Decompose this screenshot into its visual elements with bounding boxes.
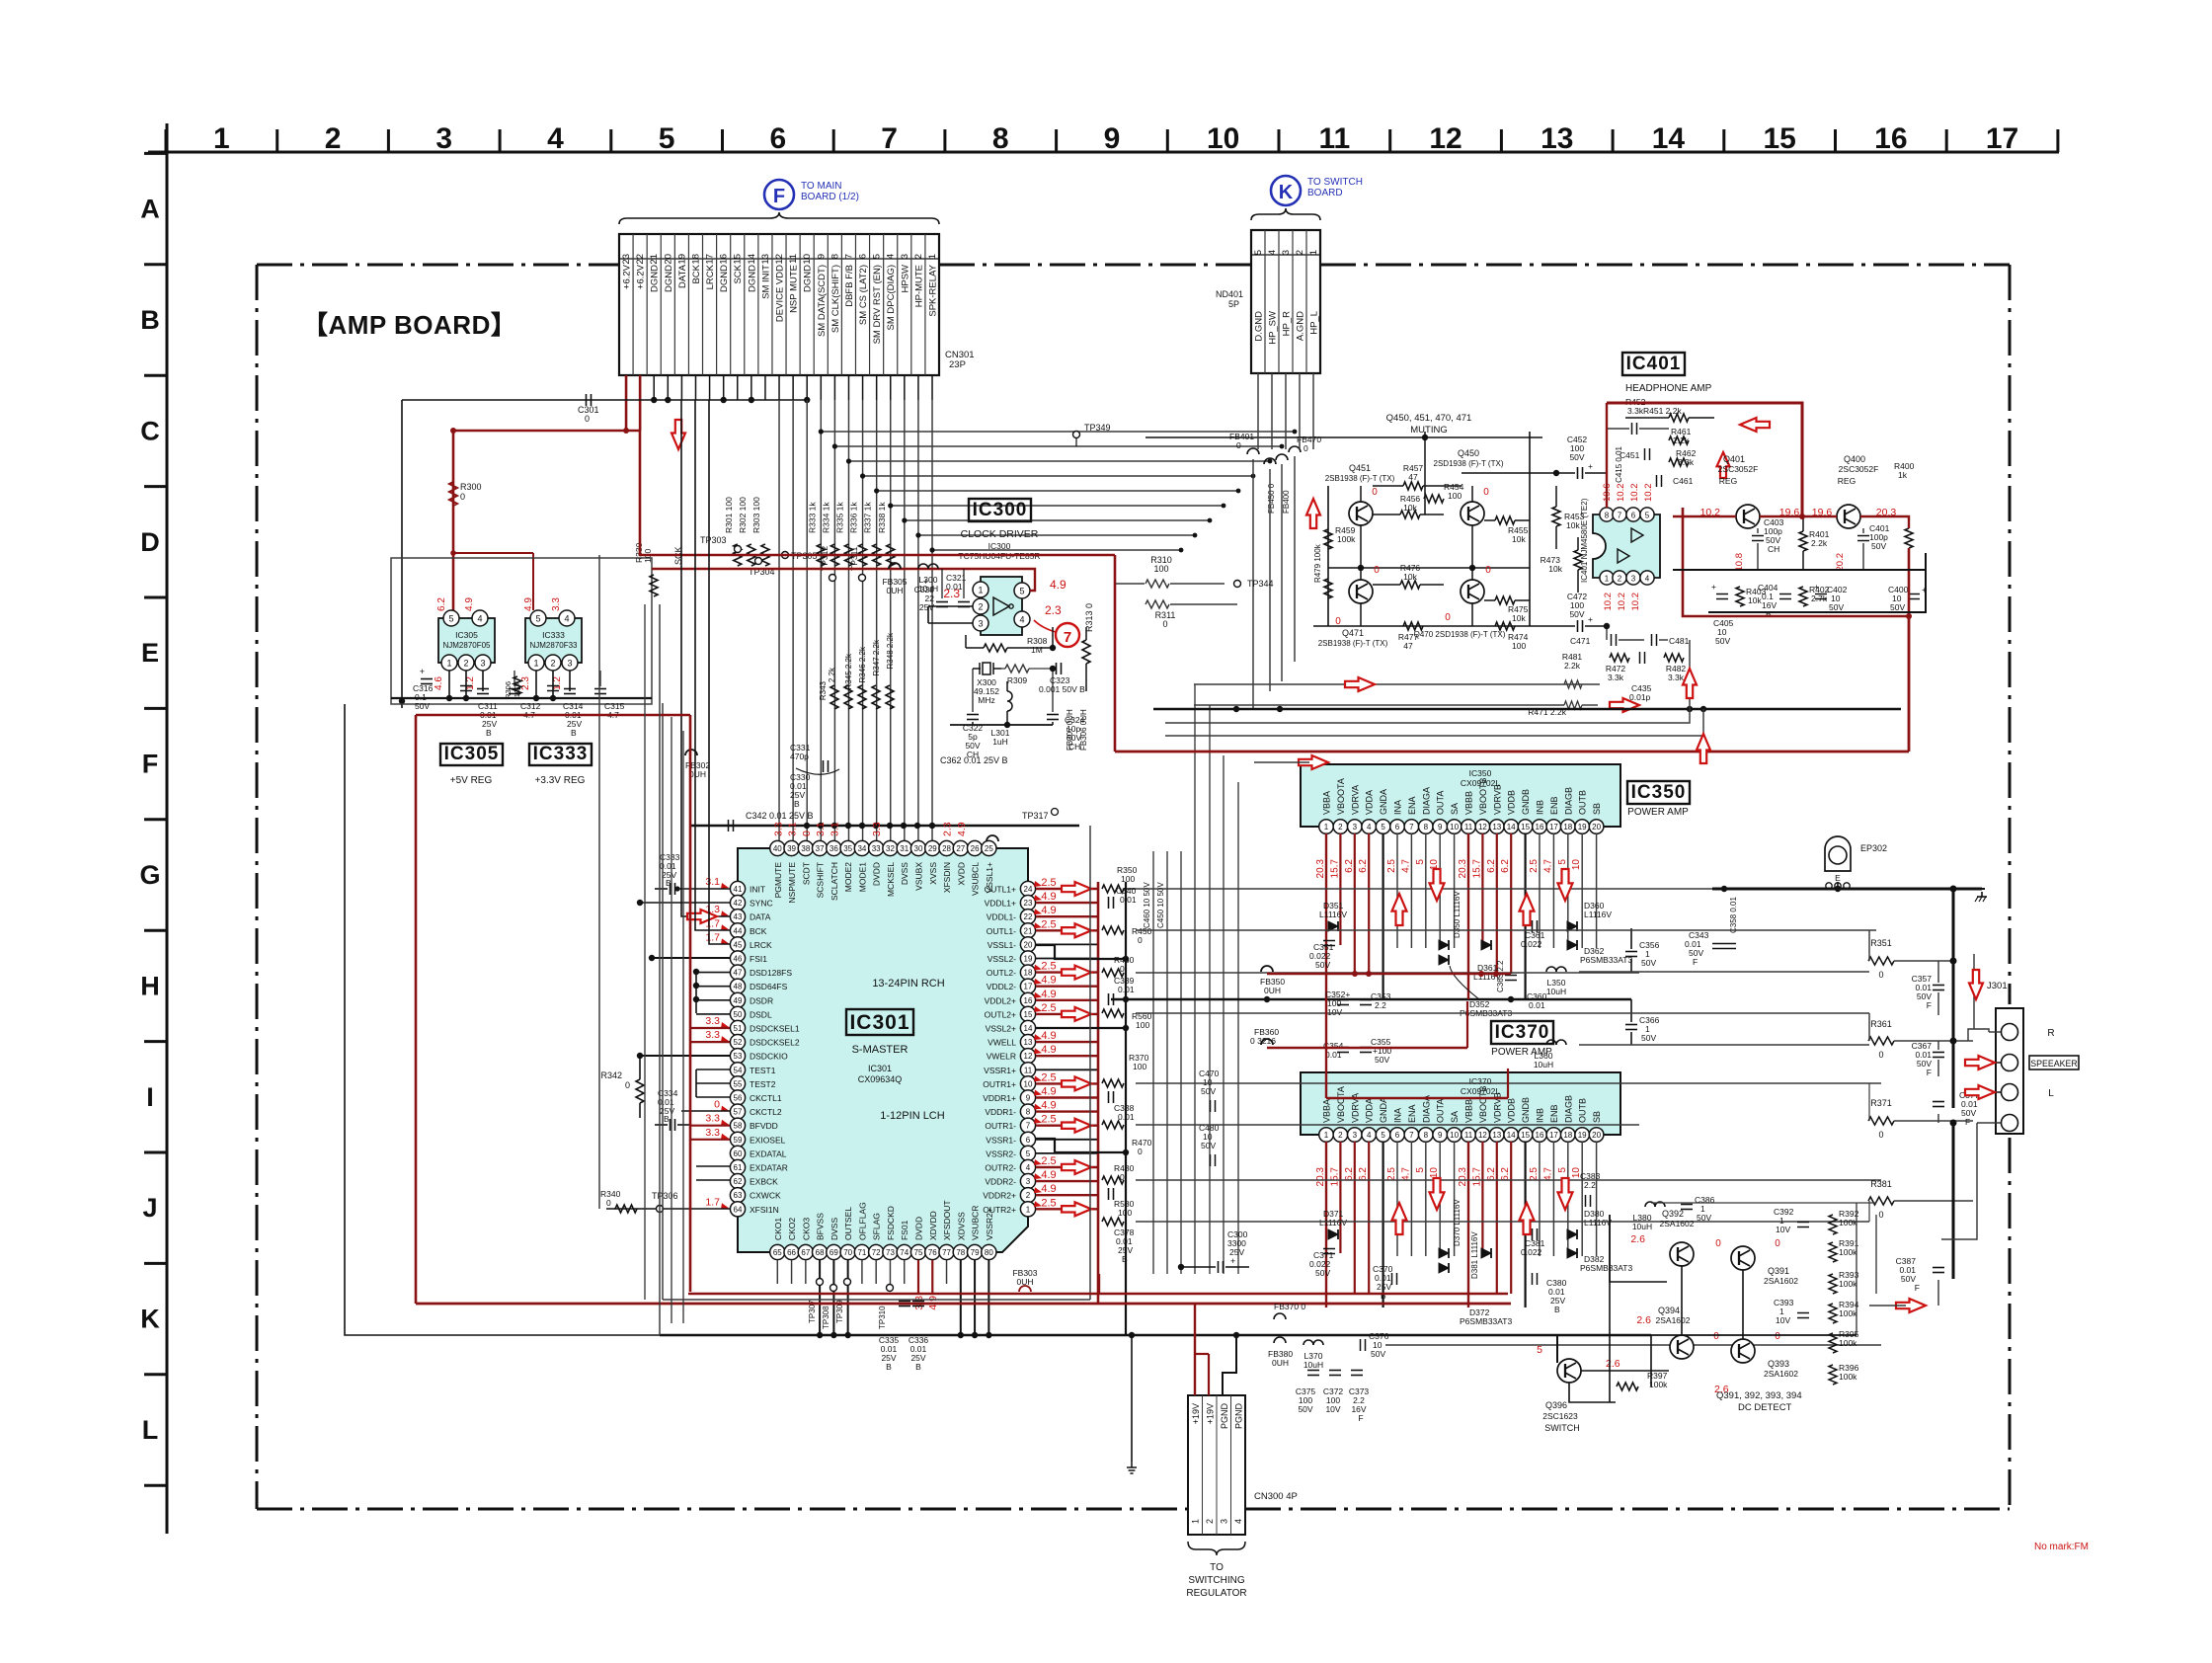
svg-text:16: 16 [1874, 122, 1907, 155]
svg-text:F: F [773, 186, 785, 207]
svg-text:OUTL2-: OUTL2- [987, 968, 1016, 978]
svg-text:VBOOTB: VBOOTB [1478, 777, 1488, 815]
svg-text:20: 20 [1024, 940, 1033, 949]
capacitor C322 [967, 714, 979, 716]
svg-text:100k: 100k [1839, 1247, 1857, 1257]
svg-text:12: 12 [1478, 823, 1487, 831]
svg-text:4: 4 [1645, 575, 1650, 584]
ferrite FB370 [1274, 1313, 1286, 1319]
svg-text:DATA: DATA [677, 264, 688, 288]
svg-text:0: 0 [1485, 565, 1491, 576]
inductor L301 [1007, 691, 1012, 711]
svg-text:13: 13 [1024, 1038, 1033, 1047]
svg-text:MODE2: MODE2 [843, 862, 853, 893]
svg-text:BFVDD: BFVDD [750, 1121, 778, 1131]
red rail to IC370 [1325, 999, 1327, 1098]
svg-text:50V: 50V [1829, 602, 1844, 612]
svg-text:3.3: 3.3 [705, 1127, 720, 1139]
svg-text:FSI1: FSI1 [750, 954, 767, 964]
svg-text:8: 8 [992, 122, 1009, 155]
svg-text:67: 67 [801, 1248, 810, 1257]
capacitor pin9 [1108, 1091, 1110, 1103]
svg-text:0: 0 [1138, 1147, 1143, 1156]
svg-text:ND401: ND401 [1216, 289, 1243, 299]
svg-text:REG: REG [1719, 476, 1737, 486]
svg-text:25V: 25V [919, 602, 934, 612]
svg-text:TP303: TP303 [700, 535, 727, 545]
svg-text:ENA: ENA [1407, 1104, 1417, 1123]
capacitors C335 C336 [899, 1301, 910, 1303]
IC IC370 power amp [1301, 1072, 1620, 1135]
svg-text:3: 3 [435, 122, 452, 155]
capacitors C375 C372 C373 [1307, 1370, 1319, 1372]
svg-text:R371: R371 [1870, 1098, 1892, 1108]
svg-text:79: 79 [971, 1248, 980, 1257]
svg-text:3.3: 3.3 [705, 1015, 720, 1027]
transistor Q396 [1557, 1359, 1581, 1383]
svg-text:6.2: 6.2 [1344, 859, 1355, 873]
svg-text:0: 0 [585, 414, 590, 424]
svg-text:OFLFLAG: OFLFLAG [857, 1202, 867, 1240]
transistor Q450 [1461, 502, 1484, 525]
svg-text:0UH: 0UH [1264, 986, 1281, 995]
svg-text:61: 61 [734, 1163, 743, 1172]
IC301 bottom pin wires [776, 1260, 778, 1284]
wire FSI1 [652, 957, 730, 959]
svg-text:12: 12 [774, 254, 785, 265]
svg-text:NJM2870F05: NJM2870F05 [442, 641, 491, 650]
svg-text:0: 0 [714, 1099, 720, 1111]
resistor R451 [1669, 414, 1689, 422]
svg-text:6.2: 6.2 [1358, 1167, 1369, 1181]
svg-text:6: 6 [1395, 1131, 1400, 1140]
wire frame around IC301 left [662, 703, 664, 1300]
resistor R310 [1145, 580, 1169, 588]
svg-text:DSDCKIO: DSDCKIO [750, 1052, 788, 1062]
gnd bus under regulators [391, 697, 652, 699]
svg-text:17: 17 [1549, 1131, 1558, 1140]
svg-text:2SD1938 (F)-T (TX): 2SD1938 (F)-T (TX) [1434, 459, 1504, 468]
svg-text:INA: INA [1393, 1108, 1403, 1123]
svg-text:65: 65 [773, 1248, 782, 1257]
svg-text:10.2: 10.2 [1616, 484, 1626, 503]
svg-text:2SA1602: 2SA1602 [1764, 1276, 1798, 1286]
svg-text:0: 0 [1878, 1210, 1883, 1220]
svg-text:15: 15 [1521, 823, 1530, 831]
svg-text:8: 8 [1026, 1108, 1031, 1117]
resistor R453 [1552, 507, 1560, 526]
svg-text:SCDT: SCDT [801, 862, 811, 885]
svg-text:50V: 50V [1715, 636, 1730, 646]
svg-text:4: 4 [1367, 1131, 1372, 1140]
hp bus thick [1153, 708, 1901, 711]
svg-text:Q400: Q400 [1844, 454, 1865, 464]
svg-text:VDDR1+: VDDR1+ [983, 1093, 1016, 1103]
svg-text:A.GND: A.GND [1296, 311, 1306, 341]
svg-text:+: + [1588, 614, 1593, 624]
wire DSD group [696, 972, 730, 974]
wire IC305 pins to gnd bus [448, 671, 450, 698]
svg-text:HP_L: HP_L [1309, 311, 1320, 335]
svg-text:100: 100 [1512, 641, 1526, 651]
svg-text:CKO2: CKO2 [787, 1218, 797, 1240]
capacitor C331 [823, 760, 825, 772]
svg-text:10: 10 [802, 254, 813, 265]
svg-text:13-24PIN RCH: 13-24PIN RCH [872, 978, 944, 990]
svg-text:2.2k: 2.2k [1673, 436, 1690, 445]
svg-text:1-12PIN LCH: 1-12PIN LCH [880, 1110, 944, 1122]
svg-text:21: 21 [649, 254, 660, 265]
svg-text:2.2: 2.2 [1584, 1180, 1596, 1190]
svg-text:2.5: 2.5 [1041, 961, 1056, 973]
capacitor C371 [1323, 1248, 1335, 1250]
svg-text:13: 13 [1540, 122, 1573, 155]
svg-text:50V: 50V [1569, 452, 1584, 462]
svg-text:8: 8 [829, 254, 840, 259]
svg-text:1: 1 [533, 659, 538, 669]
svg-text:55: 55 [734, 1079, 743, 1088]
svg-text:0: 0 [1878, 1050, 1883, 1060]
svg-text:50V: 50V [1201, 1141, 1216, 1150]
wire frame around IC301 right [1089, 826, 1091, 1300]
svg-text:7: 7 [843, 254, 854, 259]
svg-text:R301 100: R301 100 [724, 497, 734, 533]
svg-text:1: 1 [978, 586, 983, 595]
svg-text:2.2k: 2.2k [828, 667, 836, 682]
svg-text:100k: 100k [1839, 1279, 1857, 1289]
resistor pin1 [1102, 1218, 1124, 1226]
svg-text:VDDL1-: VDDL1- [987, 912, 1016, 922]
svg-text:3.3: 3.3 [871, 822, 883, 836]
svg-text:0: 0 [625, 1080, 630, 1090]
flag 7 callout [1056, 623, 1079, 647]
svg-text:Q470 2SD1938 (F)-T (TX): Q470 2SD1938 (F)-T (TX) [1414, 630, 1506, 639]
svg-text:10V: 10V [1776, 1315, 1790, 1325]
svg-text:2: 2 [978, 602, 983, 612]
svg-text:0: 0 [1335, 616, 1341, 627]
svg-text:4.9: 4.9 [1041, 989, 1056, 1000]
svg-text:B: B [666, 878, 671, 888]
svg-text:20.3: 20.3 [1458, 1167, 1468, 1187]
svg-text:SM INIT: SM INIT [760, 265, 771, 299]
svg-text:DIAGB: DIAGB [1563, 787, 1573, 815]
svg-text:VDRVB: VDRVB [1492, 1092, 1502, 1123]
svg-text:0.01: 0.01 [1325, 1050, 1342, 1060]
capacitor C301 [586, 394, 588, 406]
svg-text:29: 29 [928, 844, 937, 853]
svg-text:20.3: 20.3 [1458, 859, 1468, 879]
svg-text:2.5: 2.5 [1041, 1197, 1056, 1209]
svg-text:CKCTL1: CKCTL1 [750, 1093, 782, 1103]
board outline right edge upper [2009, 265, 2012, 1004]
svg-text:16: 16 [719, 254, 730, 265]
svg-text:TP308: TP308 [822, 1306, 830, 1329]
svg-text:1k: 1k [1898, 470, 1908, 480]
svg-text:DSD64FS: DSD64FS [750, 982, 788, 991]
resistor R401 [1799, 531, 1807, 551]
svg-text:VSSL1-: VSSL1- [987, 940, 1016, 950]
svg-text:6: 6 [1026, 1136, 1031, 1145]
svg-text:19: 19 [1578, 1131, 1587, 1140]
svg-text:HP_R: HP_R [1282, 311, 1293, 336]
svg-text:0: 0 [1878, 970, 1883, 980]
svg-text:2.3: 2.3 [520, 676, 531, 690]
svg-text:IC350: IC350 [1631, 782, 1687, 803]
resistor R361 [1868, 1037, 1894, 1045]
svg-text:PGND: PGND [1220, 1403, 1229, 1430]
svg-text:22: 22 [1024, 912, 1033, 921]
ferrite bead FB305 [889, 563, 901, 569]
wire INIT [677, 888, 730, 890]
IC301 right pins 24-1 [1020, 881, 1035, 896]
red wire Q401 rail [1673, 515, 1736, 517]
svg-text:LRCK: LRCK [705, 264, 716, 289]
svg-text:VBBA: VBBA [1322, 791, 1332, 815]
svg-text:Q391: Q391 [1768, 1266, 1789, 1276]
svg-text:10k: 10k [1403, 572, 1417, 582]
IC IC350 power amp [1301, 764, 1620, 827]
resistor pin18 [1102, 969, 1124, 977]
svg-text:5: 5 [1557, 1167, 1568, 1173]
svg-text:L1116V: L1116V [1319, 910, 1347, 919]
resistor bank R343-R348 [830, 685, 838, 709]
transistor Q471 [1349, 580, 1373, 603]
svg-text:19: 19 [676, 254, 687, 265]
grid ruler left line [166, 123, 169, 1534]
connector J301 pins [2002, 1024, 2018, 1041]
wire EXDATA pins [696, 1165, 730, 1167]
svg-text:GNDA: GNDA [1379, 1097, 1388, 1123]
svg-text:2: 2 [550, 659, 555, 669]
svg-text:IC370: IC370 [1469, 1076, 1492, 1086]
svg-text:7: 7 [1409, 1131, 1414, 1140]
resistor R393 [1829, 1274, 1837, 1294]
CN300 brace [1188, 1542, 1245, 1555]
svg-text:37: 37 [816, 844, 825, 853]
capacitor C370 [1391, 1273, 1393, 1285]
svg-text:10.2: 10.2 [1643, 484, 1654, 503]
svg-text:ENB: ENB [1549, 796, 1559, 815]
svg-text:TP312: TP312 [820, 546, 829, 571]
svg-text:5: 5 [1537, 1344, 1542, 1356]
svg-text:1: 1 [1605, 575, 1610, 584]
svg-text:4: 4 [547, 122, 564, 155]
svg-text:VSSL2-: VSSL2- [987, 954, 1016, 964]
connector ND401 body [1251, 230, 1320, 373]
svg-text:0: 0 [1236, 440, 1241, 450]
arrow below CN301 [671, 420, 685, 449]
capacitor C361 [1532, 920, 1534, 932]
svg-text:FB401: FB401 [1229, 432, 1254, 441]
svg-text:INB: INB [1536, 800, 1545, 815]
ferrite FB380 [1274, 1337, 1286, 1343]
svg-text:25: 25 [985, 844, 993, 853]
svg-text:10: 10 [1571, 859, 1582, 871]
svg-text:SCLATCH: SCLATCH [829, 862, 839, 901]
svg-text:+5V REG: +5V REG [450, 775, 493, 786]
svg-text:0.01: 0.01 [1118, 1112, 1135, 1122]
svg-text:72: 72 [872, 1248, 881, 1257]
right edge vertical bus [1973, 954, 1975, 1029]
svg-text:J301: J301 [1987, 981, 2008, 991]
svg-text:R343: R343 [819, 680, 828, 700]
svg-text:0UH: 0UH [689, 769, 706, 779]
resistor R476 [1400, 581, 1420, 589]
svg-text:20.2: 20.2 [1835, 553, 1846, 572]
svg-text:VSSL2+: VSSL2+ [986, 1024, 1016, 1034]
svg-text:I: I [146, 1082, 154, 1112]
svg-text:21: 21 [1024, 926, 1033, 935]
svg-text:17: 17 [1986, 122, 2018, 155]
svg-text:OUTL1-: OUTL1- [987, 926, 1016, 936]
svg-text:OUTL2+: OUTL2+ [985, 1009, 1016, 1019]
svg-text:0: 0 [801, 831, 813, 836]
svg-text:1uH: 1uH [992, 737, 1008, 747]
svg-text:4.7: 4.7 [1400, 859, 1411, 873]
svg-text:CKO1: CKO1 [773, 1218, 783, 1240]
capacitor C320 [936, 601, 948, 603]
label box IC401 [1622, 353, 1685, 375]
resistor R306 [513, 676, 521, 694]
red drops IC350 [1325, 998, 1327, 1000]
test point TP304 [755, 558, 762, 565]
svg-text:0UH: 0UH [886, 586, 903, 595]
svg-text:6.2: 6.2 [1344, 1167, 1355, 1181]
svg-text:100k: 100k [1839, 1218, 1857, 1227]
resistor R402 [1799, 587, 1807, 606]
svg-text:CH: CH [1768, 544, 1779, 554]
svg-text:VSUBCL: VSUBCL [971, 862, 981, 896]
svg-text:IC300: IC300 [988, 541, 1011, 551]
resistor R459 [1324, 529, 1332, 549]
svg-text:18: 18 [690, 254, 701, 265]
svg-text:66: 66 [787, 1248, 796, 1257]
crystal X300 [973, 668, 981, 670]
svg-text:3.1: 3.1 [787, 822, 799, 836]
svg-text:+6.2V: +6.2V [622, 264, 633, 289]
black wires IC301 right [1036, 943, 1098, 945]
wire XFSI1N [614, 1208, 730, 1210]
svg-text:S-MASTER: S-MASTER [852, 1044, 908, 1056]
svg-text:10k: 10k [1512, 534, 1526, 544]
svg-text:DSDCKSEL2: DSDCKSEL2 [750, 1038, 800, 1048]
label box IC305 [440, 744, 503, 765]
long vertical bus left b [598, 555, 600, 1209]
svg-text:80: 80 [985, 1248, 993, 1257]
svg-text:SM DRV RST (EN): SM DRV RST (EN) [872, 265, 883, 344]
resistor R462 [1669, 458, 1689, 466]
svg-text:2.5: 2.5 [1529, 859, 1540, 873]
svg-text:0.022: 0.022 [1521, 939, 1542, 949]
svg-text:B: B [486, 728, 492, 738]
svg-text:4: 4 [564, 614, 569, 624]
svg-text:+: + [1230, 1256, 1235, 1266]
svg-text:R336 1k: R336 1k [849, 502, 859, 533]
svg-text:62: 62 [734, 1177, 743, 1186]
svg-text:2: 2 [1618, 575, 1622, 584]
svg-text:L: L [142, 1415, 159, 1445]
capacitor C357 [1933, 985, 1944, 987]
svg-text:10uH: 10uH [1534, 1060, 1553, 1069]
svg-text:SFLAG: SFLAG [872, 1213, 882, 1240]
svg-text:28: 28 [942, 844, 951, 853]
vertical wires right of IC301 [1152, 851, 1154, 1274]
svg-text:6.2: 6.2 [1500, 1167, 1511, 1181]
svg-text:VSSR2-: VSSR2- [986, 1148, 1016, 1158]
svg-text:TP349: TP349 [1084, 423, 1111, 433]
arrow before IC350 [1299, 755, 1328, 769]
capacitor C352 [1337, 999, 1349, 1001]
resistor R474 [1495, 622, 1515, 630]
svg-text:13: 13 [1492, 1131, 1501, 1140]
svg-text:1: 1 [1026, 1205, 1031, 1214]
capacitor C354 [1337, 1047, 1349, 1049]
svg-text:6.2: 6.2 [1486, 1167, 1497, 1181]
svg-text:TO: TO [1210, 1562, 1224, 1573]
svg-text:19: 19 [1024, 955, 1033, 964]
wire VSSL2 join [1036, 1027, 1126, 1029]
svg-text:F: F [1927, 1000, 1932, 1010]
svg-text:47: 47 [734, 969, 743, 978]
ferrite FB401 [1247, 448, 1259, 454]
svg-text:23: 23 [1024, 899, 1033, 908]
svg-text:77: 77 [942, 1248, 951, 1257]
svg-text:100: 100 [1121, 874, 1135, 884]
svg-text:470p: 470p [790, 752, 809, 761]
svg-text:VSSR1-: VSSR1- [986, 1135, 1016, 1145]
resistor R482 [1664, 654, 1684, 662]
speaker stub wires [1989, 1031, 2001, 1033]
svg-text:14: 14 [1024, 1024, 1033, 1033]
svg-text:23P: 23P [949, 359, 966, 370]
svg-text:50V: 50V [1315, 960, 1330, 970]
muting feed line [1145, 436, 1542, 438]
wire DSDCKIO [640, 1055, 730, 1057]
transistor Q394 [1670, 1335, 1694, 1359]
svg-text:2.5: 2.5 [1386, 859, 1397, 873]
long audio lines to output [1136, 888, 1712, 890]
svg-text:5: 5 [1019, 587, 1024, 596]
svg-text:1: 1 [1324, 823, 1329, 831]
wire CKCTL2 [681, 1110, 730, 1112]
svg-text:SB: SB [1592, 1111, 1602, 1123]
svg-text:REGULATOR: REGULATOR [1186, 1588, 1246, 1599]
svg-text:71: 71 [857, 1248, 866, 1257]
svg-text:HPSW: HPSW [900, 265, 910, 293]
svg-text:6: 6 [1631, 512, 1636, 520]
svg-text:EXBCK: EXBCK [750, 1177, 778, 1187]
wires ND401 to muting [1257, 373, 1259, 449]
capacitor C386 [1681, 1204, 1693, 1206]
svg-text:+: + [420, 667, 425, 676]
svg-text:BCK: BCK [691, 264, 702, 283]
svg-text:DVSS: DVSS [900, 862, 909, 885]
svg-text:IC333: IC333 [542, 630, 565, 640]
red bus upper [688, 1293, 1508, 1295]
svg-text:2.5: 2.5 [1041, 877, 1056, 889]
svg-text:100k: 100k [1839, 1338, 1857, 1348]
grid ruler top ticks [165, 129, 168, 152]
red wires IC301 right [1036, 888, 1098, 890]
svg-text:R333 1k: R333 1k [807, 502, 817, 533]
svg-text:ENA: ENA [1407, 796, 1417, 815]
svg-text:3: 3 [480, 659, 485, 669]
board outline top-left segment [257, 264, 619, 267]
svg-text:+3.3V REG: +3.3V REG [535, 775, 586, 786]
svg-text:2SB1938 (F)-T (TX): 2SB1938 (F)-T (TX) [1318, 639, 1388, 648]
svg-text:SWITCHING: SWITCHING [1188, 1575, 1244, 1586]
svg-text:3.3k: 3.3k [1627, 406, 1644, 416]
